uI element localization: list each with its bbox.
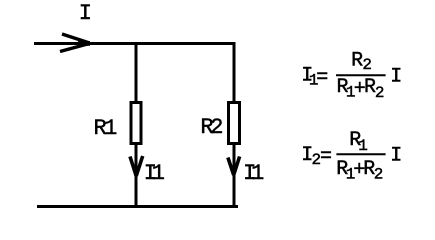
wire below R1 xyxy=(135,145,138,207)
wire top right corner drop to R2 xyxy=(233,42,236,101)
label I1 left xyxy=(144,161,165,186)
svg-text:1: 1 xyxy=(358,137,368,155)
svg-text:=: = xyxy=(316,67,328,90)
svg-text:=: = xyxy=(320,146,332,169)
label R2 xyxy=(200,115,223,140)
formula 1: I1 = R2/(R1+R2) I xyxy=(301,50,402,102)
svg-text:1: 1 xyxy=(152,161,165,186)
svg-text:2: 2 xyxy=(375,84,385,102)
current arrow on top wire xyxy=(60,34,90,52)
formula 2: I2 = R1/(R1+R2) I xyxy=(301,129,402,183)
arrow I1 right (down) xyxy=(228,157,240,176)
svg-text:2: 2 xyxy=(374,165,384,183)
svg-text:I: I xyxy=(79,1,92,26)
wire top horizontal xyxy=(34,42,236,45)
svg-text:I: I xyxy=(390,144,402,167)
svg-text:2: 2 xyxy=(210,115,223,140)
svg-text:1: 1 xyxy=(104,116,117,141)
svg-text:1: 1 xyxy=(251,161,264,186)
arrow I1 left (down) xyxy=(130,156,143,176)
wire junction drop to R1 xyxy=(135,44,138,102)
svg-text:2: 2 xyxy=(362,56,372,74)
label I1 right xyxy=(243,161,264,186)
wire bottom horizontal xyxy=(37,205,238,208)
resistor R1 xyxy=(131,103,141,144)
svg-text:R: R xyxy=(351,50,363,73)
wire below R2 xyxy=(233,145,236,207)
resistor R2 xyxy=(229,103,240,144)
svg-text:I: I xyxy=(390,65,402,88)
label R1 xyxy=(93,116,117,141)
